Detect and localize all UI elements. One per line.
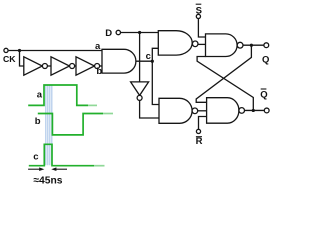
- wire NAND2 output to Q: [243, 44, 264, 46]
- NAND gate U4 (bottom-right, Q-bar): [207, 98, 239, 124]
- svg-text:CK: CK: [3, 54, 16, 64]
- wire node c up to NAND1 input: [152, 48, 158, 61]
- wire NAND4 output to Q-bar: [245, 109, 265, 111]
- wire inv2 to inv3: [75, 65, 76, 67]
- wire AND output to node c: [136, 60, 152, 62]
- terminal D: [116, 30, 120, 34]
- NAND gate U2 (top-right, Q): [206, 34, 238, 57]
- inverter 1: [24, 57, 43, 75]
- node c junction: [151, 60, 154, 63]
- wire NAND1 output to NAND2: [198, 43, 206, 45]
- wire inv1 to inv2: [47, 65, 51, 67]
- arrow left (pulse width): [28, 168, 40, 170]
- wire CK rail to node a: [9, 50, 102, 52]
- svg-text:c: c: [146, 51, 151, 62]
- svg-text:D: D: [105, 28, 112, 39]
- wire node c down to NAND3 input: [152, 61, 159, 104]
- waveform a (green): [28, 85, 88, 105]
- svg-text:a: a: [37, 90, 43, 101]
- NAND gate U3 (bottom-left): [159, 98, 192, 123]
- terminal Q: [264, 43, 269, 48]
- svg-text:Q: Q: [262, 54, 269, 65]
- inverter 2: [51, 57, 70, 75]
- dashed guide lines (timing window): [46, 85, 52, 166]
- svg-text:≈45ns: ≈45ns: [33, 175, 62, 185]
- inverter 3: [76, 57, 95, 75]
- wire NAND3 output to NAND4: [198, 110, 207, 112]
- wire Q-bar feedback to NAND2: [197, 57, 253, 111]
- svg-text:b: b: [35, 116, 41, 127]
- wire D-bar to NAND3 input: [140, 100, 159, 118]
- AND gate G1: [102, 49, 136, 73]
- wire S-bar to NAND2: [198, 19, 205, 38]
- junction on D wire: [138, 31, 141, 34]
- terminal CK: [4, 48, 8, 52]
- junction on Q wire: [250, 44, 253, 47]
- svg-text:c: c: [33, 151, 38, 162]
- wire R-bar to NAND4: [199, 117, 207, 130]
- terminal Q-bar: [264, 108, 269, 113]
- svg-text:Q: Q: [260, 89, 267, 100]
- waveform c (green): [29, 144, 94, 165]
- wire inv3 to AND gate (node b): [100, 65, 102, 67]
- svg-text:a: a: [95, 41, 101, 52]
- wire CK down to inverter chain: [20, 51, 24, 67]
- wire Q feedback to NAND4: [196, 45, 251, 102]
- svg-text:R: R: [196, 136, 203, 147]
- arrow right (pulse width): [56, 168, 67, 170]
- wire D to NAND1 input: [121, 32, 159, 34]
- terminal S-bar: [196, 14, 200, 18]
- waveform b (green): [38, 114, 103, 135]
- svg-text:S: S: [196, 5, 202, 16]
- junction on CK rail: [18, 49, 21, 52]
- junction on Q-bar wire: [252, 109, 255, 112]
- wire D down to inverter: [139, 33, 141, 82]
- NAND gate U1 (top-left): [158, 31, 192, 55]
- inverter (D-bar, pointing down): [131, 82, 149, 96]
- terminal R-bar: [196, 129, 200, 133]
